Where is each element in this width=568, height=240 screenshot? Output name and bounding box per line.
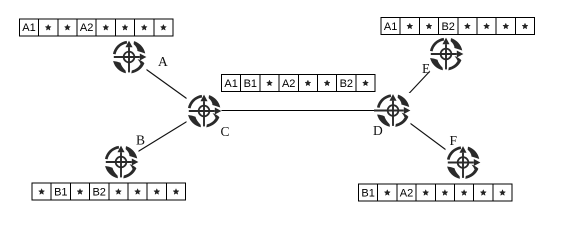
wire D-F xyxy=(393,111,463,163)
svg-text:B2: B2 xyxy=(92,186,105,198)
svg-text:A1: A1 xyxy=(22,22,35,34)
svg-text:C: C xyxy=(221,124,230,139)
svg-text:B1: B1 xyxy=(361,187,374,199)
table C-D (center): A1 B1 * A2 * * B2 * xyxy=(222,74,376,91)
table A (top-left): A1 * * A2 * * * * xyxy=(19,19,173,36)
svg-text:A: A xyxy=(158,54,168,69)
table F (bottom-right): B1 * A2 * * * * * xyxy=(359,184,513,201)
router node B xyxy=(104,145,139,180)
router node E xyxy=(429,37,464,72)
svg-text:B2: B2 xyxy=(441,21,454,33)
wire C-D junction patch at D xyxy=(374,110,379,112)
wire C-D xyxy=(204,110,393,112)
router node A xyxy=(112,40,147,75)
table B (bottom-left): * B1 * B2 * * * * xyxy=(32,183,186,200)
wire B-C xyxy=(121,111,204,162)
table E (top-right): A1 * * B2 * * * * xyxy=(381,18,535,35)
svg-text:A2: A2 xyxy=(80,22,93,34)
svg-text:A2: A2 xyxy=(282,78,295,90)
svg-text:B2: B2 xyxy=(340,78,353,90)
svg-text:B1: B1 xyxy=(54,186,67,198)
router node F xyxy=(446,145,481,180)
svg-text:B: B xyxy=(136,133,145,148)
wire A-C xyxy=(129,57,204,111)
router node C xyxy=(187,94,222,129)
svg-text:D: D xyxy=(373,123,383,138)
svg-text:A1: A1 xyxy=(384,21,397,33)
svg-text:E: E xyxy=(422,61,430,76)
router node D xyxy=(376,93,411,128)
svg-text:A2: A2 xyxy=(400,187,413,199)
wire D-E xyxy=(393,54,446,111)
svg-text:F: F xyxy=(450,133,458,148)
svg-text:A1: A1 xyxy=(224,78,237,90)
svg-text:B1: B1 xyxy=(244,78,257,90)
